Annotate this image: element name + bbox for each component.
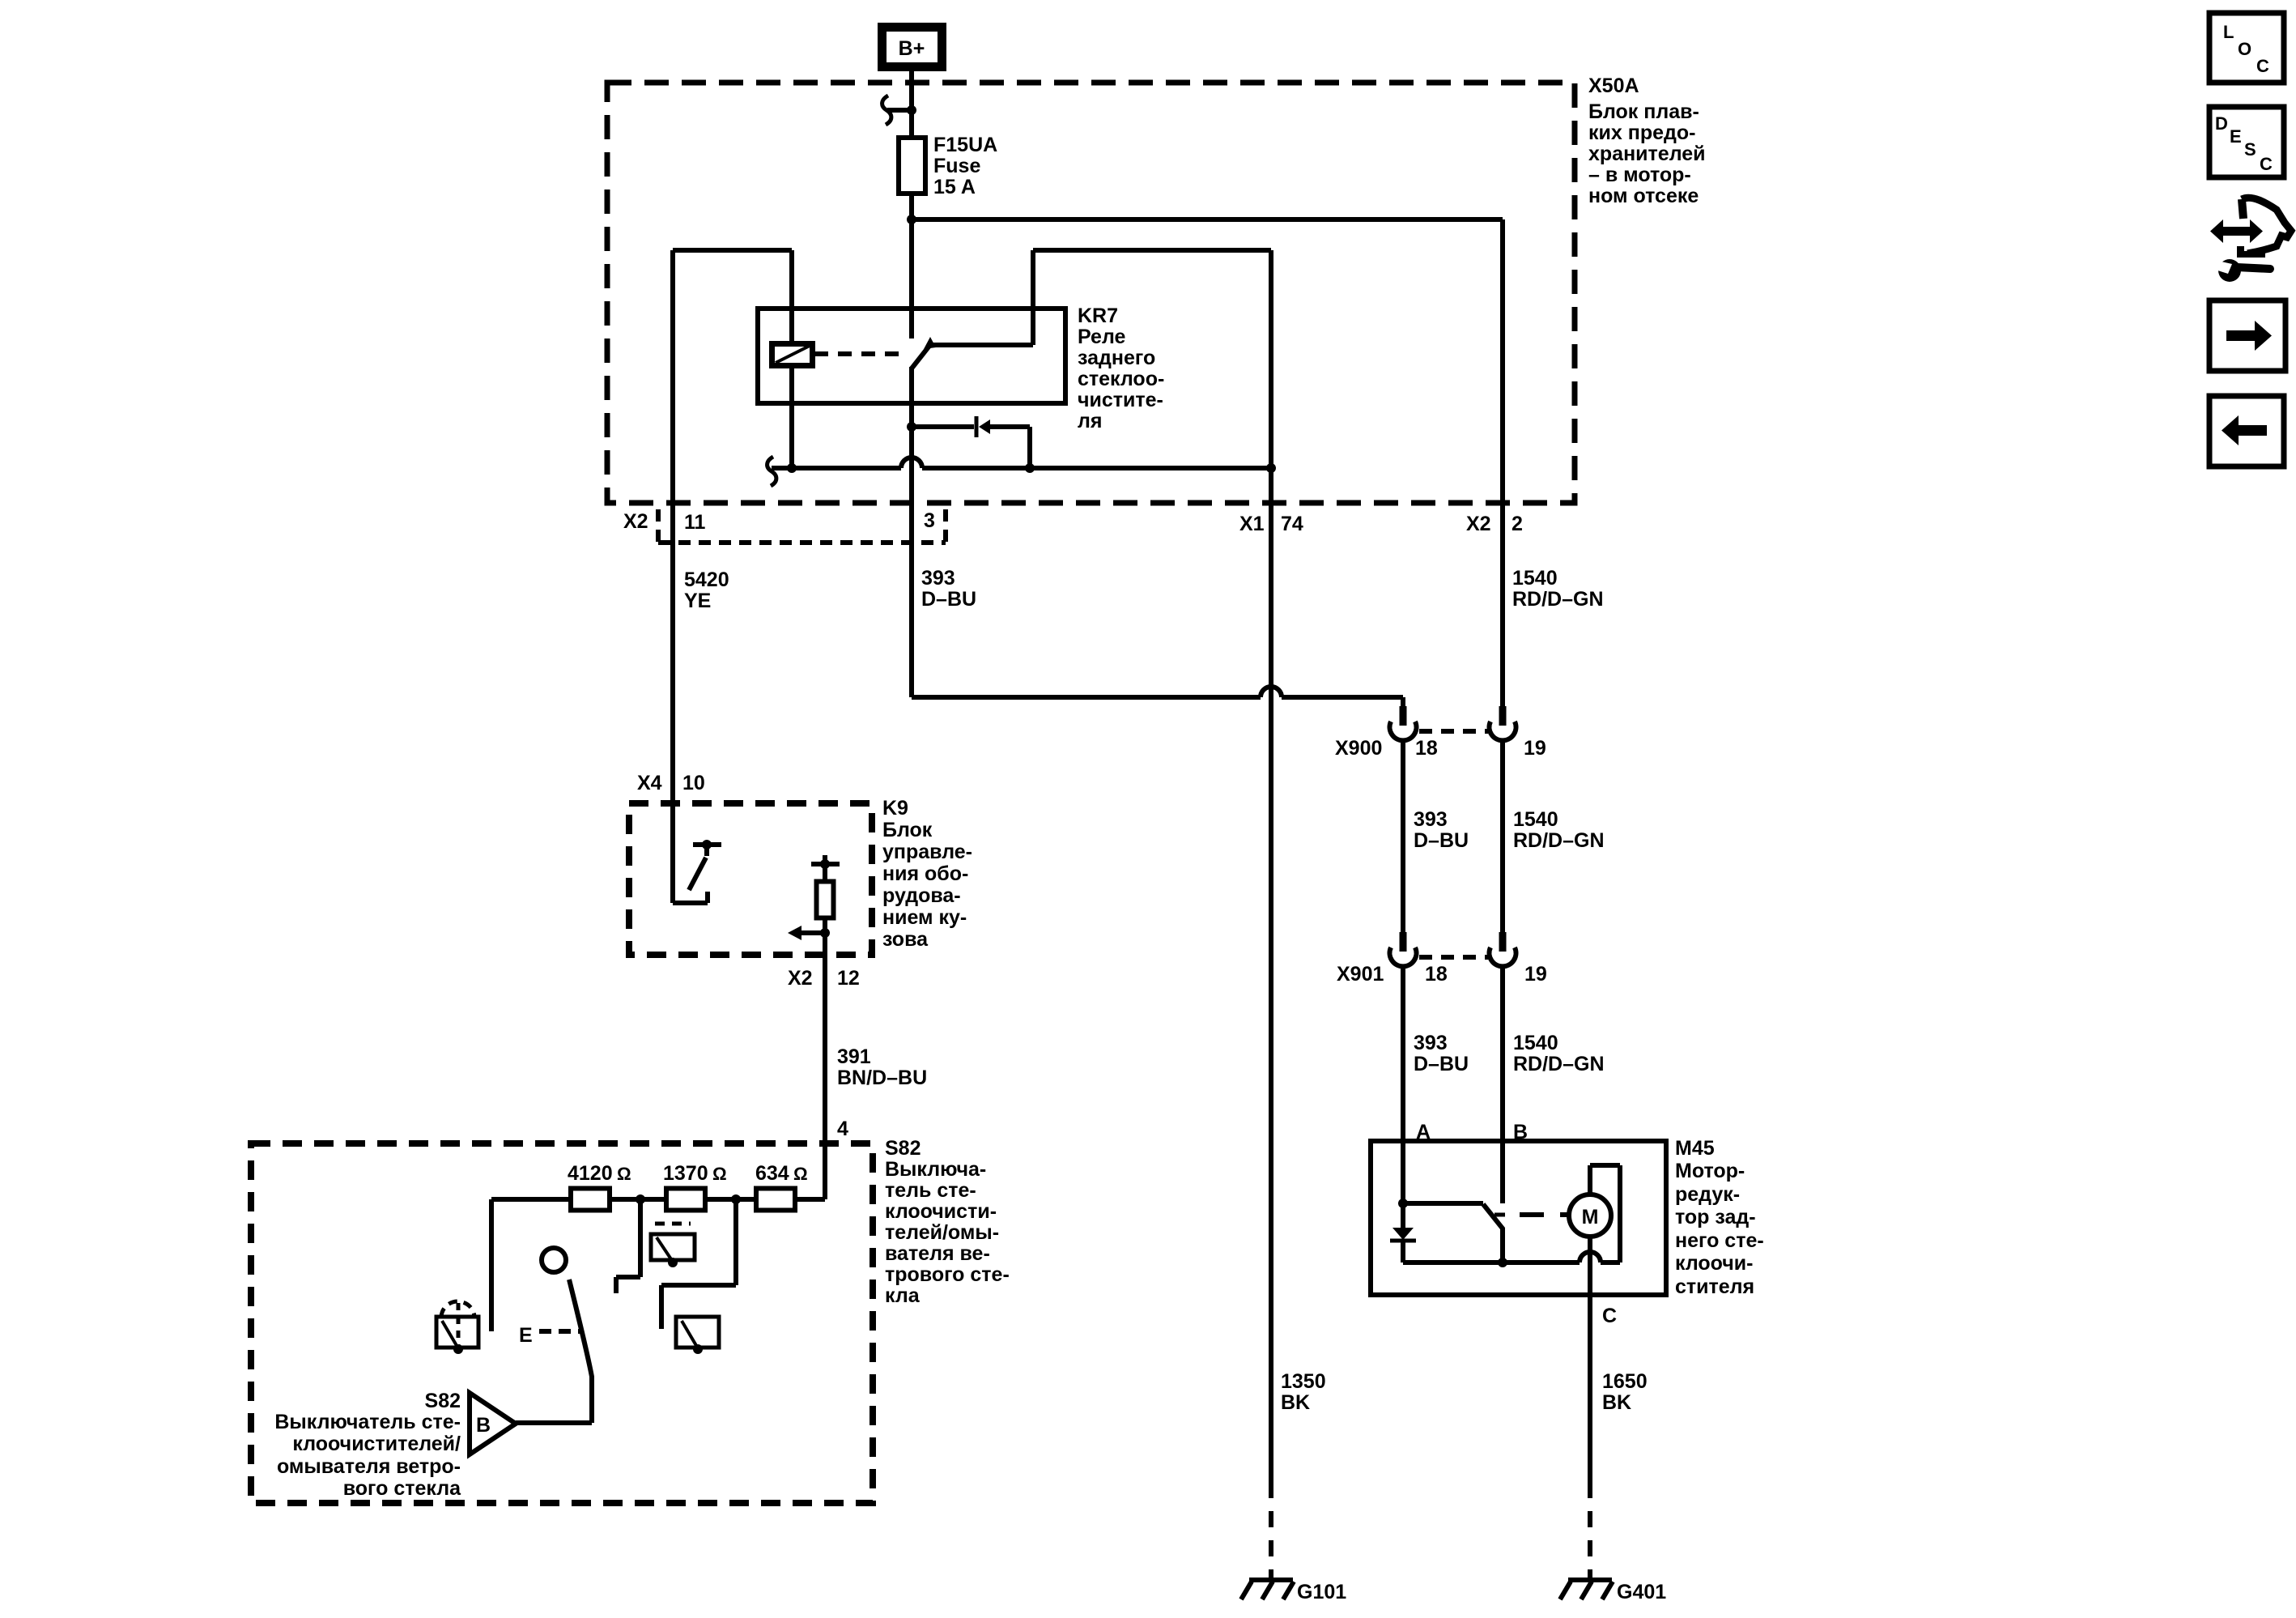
fuse F15UA [899, 138, 925, 194]
wire label 393 D-BU upper [921, 567, 976, 611]
connector X2 sub-box dashed outline at pins 11 and 3 [658, 509, 946, 543]
svg-text:Выключа-: Выключа- [885, 1158, 986, 1181]
navigation icon DESC letters [2215, 113, 2273, 174]
washer pump symbol left dashed spray dome [441, 1301, 474, 1317]
node junction dot park switch pivot [1498, 1258, 1507, 1267]
svg-text:D–BU: D–BU [1414, 1053, 1469, 1075]
svg-text:BK: BK [1602, 1391, 1631, 1414]
svg-text:редук-: редук- [1675, 1183, 1740, 1206]
svg-text:X4: X4 [637, 772, 662, 794]
rear wiper motor M45 box [1371, 1141, 1666, 1295]
S82 output buffer triangle B [470, 1393, 516, 1454]
wire 393 D-BU pin 3 down [909, 367, 914, 697]
wire relay switch common down [909, 367, 914, 697]
M45 park switch fixed line [1403, 1201, 1483, 1206]
svg-text:S82: S82 [885, 1137, 921, 1160]
svg-text:4120: 4120 [568, 1162, 613, 1185]
wiper intermittent symbol arm [657, 1237, 673, 1262]
svg-text:19: 19 [1524, 963, 1547, 986]
svg-text:управле-: управле- [882, 841, 972, 863]
navigation icon forward arrow box [2209, 300, 2285, 371]
svg-text:393: 393 [1414, 808, 1448, 831]
resistor 4120 ohm [571, 1189, 610, 1211]
battery feed B+ terminal box [882, 28, 942, 67]
wire blade to output buffer [516, 1420, 592, 1425]
svg-text:RD/D–GN: RD/D–GN [1513, 1053, 1605, 1075]
washer pump symbol left pivot dot [453, 1344, 463, 1354]
node junction dot coil return at bottom bus [787, 463, 797, 473]
svg-text:L: L [2223, 22, 2234, 42]
svg-text:X2: X2 [788, 967, 813, 990]
wire coil bottom down to bottom bus [789, 366, 794, 468]
wire switch output riser [1031, 250, 1035, 345]
svg-text:S: S [2244, 139, 2256, 160]
relay KR7 coil [772, 344, 813, 366]
svg-text:трового сте-: трового сте- [885, 1263, 1010, 1286]
wire coil branch top corner from pin 11 riser [673, 248, 792, 253]
svg-text:393: 393 [1414, 1032, 1448, 1054]
wire bottom bus left segment [772, 466, 901, 470]
wire fuse junction down to relay switch fixed contact [909, 219, 914, 339]
wire switch output down to bottom bus junction [1269, 250, 1273, 468]
wiper intermittent symbol pivot dot [668, 1258, 678, 1267]
M45 park switch contact tick [1495, 1213, 1505, 1217]
svg-text:X50A: X50A [1588, 75, 1639, 97]
wire 1350 BK from X1 pin 74 down to ground [1269, 468, 1273, 1498]
svg-text:D: D [2215, 113, 2228, 134]
fuse block internal connection curl at F15UA top [882, 96, 891, 125]
wire K9 input to switch sense L path [673, 803, 708, 903]
svg-text:18: 18 [1415, 737, 1438, 760]
svg-text:E: E [2230, 126, 2242, 147]
wire label 1540 RD/D-GN lower [1513, 1032, 1605, 1075]
svg-text:E: E [519, 1324, 533, 1347]
wire label 1350 BK [1281, 1370, 1326, 1414]
diagnostic icon pointer bottom bar [2237, 246, 2265, 258]
K9 sense switch upper contact T bar [693, 842, 721, 847]
node junction dot bus between 4120 and 1370 [636, 1194, 645, 1204]
washer pump symbol left dashed centerline [457, 1303, 461, 1346]
M45 diode triangle [1392, 1228, 1414, 1240]
svg-text:X900: X900 [1335, 737, 1382, 760]
connector X900 pin 18 female terminal [1389, 722, 1416, 740]
wire label 1540 RD/D-GN upper [1512, 567, 1604, 611]
svg-text:12: 12 [837, 967, 860, 990]
svg-text:– в мотор-: – в мотор- [1588, 164, 1691, 186]
navigation icon back arrow box [2209, 396, 2284, 466]
svg-text:YE: YE [684, 590, 711, 612]
svg-text:393: 393 [921, 567, 955, 590]
fuse block internal connection curl at bottom bus left end [767, 457, 776, 486]
diode cathode bar [975, 416, 979, 437]
wire 393 D-BU between X900 and X901 [1401, 740, 1405, 932]
svg-text:вого стекла: вого стекла [343, 1477, 461, 1500]
S82 off position circle [542, 1248, 566, 1272]
node junction dot bus between 1370 and 634 [731, 1194, 741, 1204]
wire diode right to riser [989, 424, 1030, 429]
svg-text:391: 391 [837, 1045, 871, 1068]
wire label 391 BN/D-BU [837, 1045, 927, 1089]
fuse F15UA value label [933, 134, 997, 198]
wire label 5420 YE [684, 568, 729, 612]
wiper low symbol pivot dot [693, 1344, 703, 1354]
wire 5420 YE from coil corner down to K9 pin X4/10 [670, 250, 675, 803]
svg-text:11: 11 [684, 511, 706, 534]
svg-text:стителя: стителя [1675, 1275, 1754, 1298]
connector X901 pin 19 female terminal [1490, 947, 1516, 966]
wire diode down to bottom bus [1401, 1241, 1405, 1262]
body control module K9 dashed box [629, 803, 872, 955]
wire bottom bus right segment [922, 466, 1271, 470]
wire throw contact drop low speed [616, 1199, 640, 1293]
relay coil suppression diode branch wire left [912, 424, 974, 429]
svg-text:Блок: Блок [882, 819, 933, 841]
relay KR7 outline box [758, 309, 1065, 403]
wire S82 pin 4 to resistor bus [823, 1143, 827, 1199]
M45 suppression diode wire [1401, 1203, 1405, 1228]
svg-text:M: M [1582, 1206, 1599, 1228]
K9 output arrow line [801, 930, 825, 935]
svg-text:1540: 1540 [1513, 1032, 1558, 1054]
svg-text:X901: X901 [1337, 963, 1384, 986]
node dot on K9 driver bar [820, 859, 830, 869]
washer pump symbol left wiper arm [442, 1321, 458, 1348]
svg-text:RD/D–GN: RD/D–GN [1512, 588, 1604, 611]
svg-text:B: B [476, 1414, 491, 1437]
svg-text:ких предо-: ких предо- [1588, 121, 1695, 144]
wire curl stub to junction [887, 108, 912, 113]
node dot on K9 upper contact [702, 840, 712, 849]
svg-text:74: 74 [1281, 513, 1303, 535]
wire motor bottom to pin C [1588, 1237, 1592, 1295]
wire diode riser down to bottom bus [1027, 427, 1032, 468]
svg-text:KR7: KR7 [1078, 304, 1118, 327]
M45 park switch blade [1483, 1204, 1503, 1262]
svg-text:D–BU: D–BU [921, 588, 976, 611]
svg-text:C: C [2260, 154, 2273, 174]
K9 sense switch upper contact stub [704, 845, 709, 856]
svg-text:C: C [1602, 1305, 1617, 1327]
K9 internal resistor [817, 882, 834, 918]
svg-text:Реле: Реле [1078, 326, 1126, 348]
svg-text:заднего: заднего [1078, 347, 1155, 369]
svg-text:D–BU: D–BU [1414, 829, 1469, 852]
connector X901 dashed body link [1419, 955, 1488, 960]
ground G101 symbol [1241, 1580, 1294, 1599]
svg-text:BK: BK [1281, 1391, 1310, 1414]
wire 1540 branch down inside fuse block [1500, 219, 1505, 706]
wire label 393 D-BU middle [1414, 808, 1469, 852]
wiper low symbol arm [682, 1321, 698, 1348]
wire switch output top horizontal [1033, 248, 1271, 253]
navigation icon back arrow [2222, 415, 2267, 445]
wire label 393 D-BU lower [1414, 1032, 1469, 1075]
svg-text:ния обо-: ния обо- [882, 862, 968, 885]
M45 motor armature circle [1569, 1194, 1611, 1237]
connector X900 dashed body link [1419, 729, 1488, 734]
svg-text:18: 18 [1425, 963, 1448, 986]
relay switch movable blade [912, 346, 929, 368]
svg-text:клоочисти-: клоочисти- [885, 1200, 997, 1223]
K9 sense switch open blade [689, 858, 706, 890]
svg-text:тор зад-: тор зад- [1675, 1206, 1756, 1228]
connector X901 pin 19 male terminal [1499, 932, 1507, 952]
wire label 1540 RD/D-GN middle [1513, 808, 1605, 852]
wire 1650 BK pin C down to ground [1588, 1295, 1592, 1498]
svg-text:Fuse: Fuse [933, 155, 980, 177]
wire throw contact drop high speed [661, 1199, 736, 1329]
connector X900 pin 18 male terminal [1400, 706, 1407, 726]
diagnostic icon pointer outline [2242, 199, 2243, 219]
wiper low symbol box [676, 1317, 719, 1348]
svg-text:рудова-: рудова- [882, 884, 961, 907]
resistor 1370 ohm [666, 1189, 705, 1211]
wire label 1650 BK [1602, 1370, 1648, 1414]
wire bottom bus hop over switch common [901, 458, 922, 468]
connector X901 pin 18 male terminal [1400, 932, 1407, 952]
svg-text:Ω: Ω [712, 1164, 727, 1184]
diode anode triangle [979, 419, 990, 434]
node junction dot below fuse [907, 215, 916, 224]
wire relay switch output contact horizontal [929, 343, 1033, 347]
svg-text:S82: S82 [425, 1390, 461, 1412]
relay switch blade arrowhead [924, 337, 936, 349]
node junction dot diode at bottom bus [1025, 463, 1035, 473]
svg-text:10: 10 [682, 772, 705, 794]
svg-text:1370: 1370 [663, 1162, 708, 1185]
svg-text:вателя ве-: вателя ве- [885, 1242, 990, 1265]
S82 selector blade [569, 1279, 592, 1423]
svg-text:2: 2 [1512, 513, 1523, 535]
svg-text:B+: B+ [899, 37, 925, 60]
wire 393 hop over 1350 BK wire [1261, 687, 1282, 697]
connector X900 pin 19 male terminal [1499, 706, 1507, 726]
navigation icon LOC box [2209, 13, 2284, 83]
svg-text:F15UA: F15UA [933, 134, 997, 156]
connector X901 pin 18 female terminal [1389, 947, 1416, 966]
svg-text:M45: M45 [1675, 1137, 1715, 1160]
svg-text:BN/D–BU: BN/D–BU [837, 1067, 927, 1089]
svg-text:3: 3 [924, 509, 935, 532]
relay KR7 coil diagonal [776, 346, 810, 363]
svg-text:G401: G401 [1617, 1581, 1666, 1603]
svg-text:кла: кла [885, 1284, 921, 1307]
node junction dot motor pin A internal [1398, 1199, 1408, 1208]
wire K9 resistor down and out pin 12 [823, 918, 827, 1143]
K9 driver output T bar [811, 862, 840, 866]
svg-text:G101: G101 [1297, 1581, 1346, 1603]
svg-text:1650: 1650 [1602, 1370, 1648, 1393]
diagnostic icon wrench head [2218, 259, 2241, 282]
svg-text:1540: 1540 [1513, 808, 1558, 831]
diagnostic icon wrench notch [2213, 260, 2232, 274]
wire 1540 RD/D-GN between X900 and X901 [1500, 740, 1505, 932]
M45 bottom bus hop over C wire [1580, 1252, 1601, 1262]
svg-text:RD/D–GN: RD/D–GN [1513, 829, 1605, 852]
svg-text:омывателя ветро-: омывателя ветро- [277, 1455, 461, 1478]
resistor 1370 value label [663, 1162, 727, 1185]
svg-text:15 A: 15 A [933, 176, 976, 198]
svg-text:C: C [2256, 56, 2269, 76]
svg-text:телей/омы-: телей/омы- [885, 1221, 999, 1244]
wire 393 D-BU down to motor pin A [1401, 966, 1405, 1203]
fuse block X50A dashed border [607, 83, 1575, 503]
svg-text:1350: 1350 [1281, 1370, 1326, 1393]
navigation icon DESC box [2209, 107, 2284, 177]
svg-text:ном отсеке: ном отсеке [1588, 185, 1699, 207]
M45 diode cathode bar [1390, 1239, 1416, 1243]
wire resistor bus [491, 1197, 825, 1202]
wire coil feed down into relay [789, 250, 794, 343]
wire 393 horizontal run to X900 [912, 695, 1261, 700]
svg-text:634: 634 [755, 1162, 789, 1185]
wiper intermittent symbol dashed line above [655, 1222, 691, 1226]
fuse block X50A name label [1588, 75, 1706, 207]
resistor 4120 value label [568, 1162, 631, 1185]
relay KR7 name label [1078, 304, 1164, 432]
svg-text:зова: зова [882, 928, 929, 951]
K9 driver stub up [823, 855, 827, 864]
svg-text:Ω: Ω [617, 1164, 631, 1184]
M45 name label [1675, 1137, 1764, 1298]
svg-text:19: 19 [1524, 737, 1546, 760]
wire 1650 BK dashed ground lead [1588, 1511, 1592, 1579]
wiper switch S82 dashed box [251, 1143, 873, 1503]
svg-text:X2: X2 [623, 510, 648, 533]
navigation icon forward arrow [2226, 321, 2272, 351]
wire B+ down to fuse block connection [909, 66, 914, 138]
wire 393 horizontal run right of hop [1282, 695, 1403, 700]
svg-text:Блок плав-: Блок плав- [1588, 100, 1699, 123]
S82 name label left [274, 1390, 461, 1500]
diagnostic icon wrench handle [2237, 267, 2270, 269]
svg-text:тель сте-: тель сте- [885, 1179, 976, 1202]
S82 name label right [885, 1137, 1010, 1307]
svg-text:стеклоо-: стеклоо- [1078, 368, 1164, 390]
svg-text:1540: 1540 [1512, 567, 1558, 590]
wire motor top loop [1590, 1165, 1620, 1262]
svg-text:4: 4 [837, 1118, 848, 1140]
K9 name label [882, 797, 972, 951]
M45 dashed link park switch to motor [1520, 1212, 1569, 1217]
node junction dot bottom bus to output riser [1266, 463, 1276, 473]
node junction dot diode left [907, 422, 916, 432]
svg-text:K9: K9 [882, 797, 908, 820]
M45 bottom bus left [1403, 1260, 1580, 1265]
svg-text:клоочистителей/: клоочистителей/ [292, 1433, 461, 1455]
svg-text:Ω: Ω [793, 1164, 808, 1184]
K9 output arrowhead [788, 926, 801, 940]
resistor 634 ohm [756, 1189, 795, 1211]
svg-text:клоочи-: клоочи- [1675, 1252, 1754, 1275]
svg-text:чистите-: чистите- [1078, 389, 1163, 411]
S82 detent dashed link [539, 1329, 583, 1334]
wire 1540 RD/D-GN down to motor pin B [1500, 966, 1505, 1203]
wire fuse bottom to junction [909, 194, 914, 219]
node junction dot at fuse top feed [907, 105, 916, 115]
wiper intermittent symbol box [651, 1234, 695, 1260]
svg-text:хранителей: хранителей [1588, 143, 1706, 165]
svg-text:O: O [2238, 39, 2251, 59]
svg-text:Мотор-: Мотор- [1675, 1160, 1745, 1182]
ground G401 symbol [1560, 1580, 1613, 1599]
wire bus left drop [489, 1199, 494, 1331]
resistor 634 value label [755, 1162, 808, 1185]
svg-text:X1: X1 [1239, 513, 1265, 535]
wire 1350 BK dashed ground lead [1269, 1511, 1273, 1579]
wire K9 driver bar to resistor [823, 864, 827, 881]
wire 393 corner down to X900 pin 18 [1401, 697, 1405, 706]
svg-text:него сте-: него сте- [1675, 1229, 1764, 1252]
diagnostic icon double arrow [2210, 219, 2263, 243]
svg-text:ля: ля [1078, 410, 1102, 432]
svg-text:нием ку-: нием ку- [882, 906, 967, 929]
navigation icon LOC letters [2223, 22, 2269, 76]
svg-text:5420: 5420 [684, 568, 729, 591]
svg-text:Выключатель сте-: Выключатель сте- [274, 1411, 461, 1433]
M45 bottom bus right [1601, 1260, 1620, 1265]
wire horizontal feed to X2 pin 2 branch [912, 217, 1503, 222]
relay actuation dashed link coil to switch [814, 351, 905, 356]
washer pump symbol left box [436, 1317, 478, 1348]
svg-text:X2: X2 [1466, 513, 1491, 535]
node junction dot K9 output arrow [820, 928, 830, 938]
connector X900 pin 19 female terminal [1490, 722, 1516, 740]
